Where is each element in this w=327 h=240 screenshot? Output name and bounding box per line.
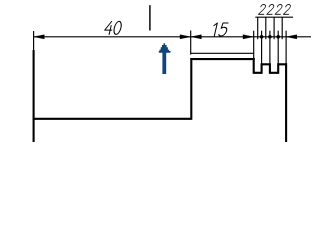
arrow 40 left [34,35,44,39]
leader 4 [281,17,283,39]
groove profile [254,58,286,142]
digit 0 [113,21,123,34]
digit 2 a [258,5,266,15]
chain dot 1 [260,35,264,39]
chain dot 2 [268,35,272,39]
shelf line under 2222 [255,16,293,18]
digit 4 [104,22,114,35]
part outline bottom edge [33,118,192,120]
part outline left edge [33,50,35,142]
part outline top of 15-section [190,58,254,60]
extension line left [33,31,35,52]
dimension line [34,36,311,38]
arrow chain right (outside, pointing left) [286,35,296,39]
digit 5 [219,23,229,36]
digit 2 d [283,5,291,15]
digit 2 c [275,5,283,15]
leader 3 [273,17,275,39]
short vertical stroke above dimension line [149,5,151,30]
arrow 40 right [180,35,190,39]
chain extension line 3 [269,31,271,64]
chain extension line 4 [277,31,279,64]
blue annotation arrow [159,43,171,74]
part outline step [190,58,192,120]
digit 2 b [267,5,275,15]
chain extension line 1 [253,31,255,58]
leader 2 [265,17,267,39]
arrow 15 right [243,35,253,39]
chain extension line 2 [261,31,263,64]
thin auxiliary line above 15-section [191,52,254,54]
arrow 15 left [191,35,201,39]
digit 1 [212,23,218,36]
extension line middle [190,31,192,55]
chain dot 3 [276,35,280,39]
chain extension line 5 [285,31,287,64]
leader 1 [257,17,259,39]
dimension text 40 [104,5,291,36]
